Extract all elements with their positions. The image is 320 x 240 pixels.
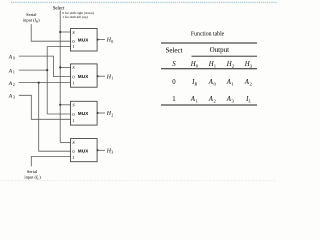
wire output H2 bbox=[97, 112, 105, 114]
svg-text:L: L bbox=[247, 99, 251, 104]
svg-text:1: 1 bbox=[72, 155, 74, 160]
node output H1 bbox=[97, 75, 99, 77]
node select-MUX0 bbox=[59, 31, 61, 33]
svg-text:3: 3 bbox=[13, 96, 15, 100]
table rule under Output bbox=[192, 55, 258, 57]
table rule mid bbox=[161, 68, 257, 70]
svg-text:0: 0 bbox=[13, 57, 15, 61]
svg-text:1: 1 bbox=[172, 96, 175, 103]
wire select stub to MUX0 S bbox=[60, 31, 70, 33]
wire output H0 bbox=[97, 39, 105, 41]
wire output H3 bbox=[97, 149, 105, 151]
wire output H1 bbox=[97, 75, 105, 77]
mux MUX0 box bbox=[71, 29, 98, 52]
wire A1 vertical net bbox=[47, 47, 70, 115]
wire select stub to MUX2 S bbox=[60, 104, 70, 106]
svg-text:1: 1 bbox=[13, 71, 15, 75]
svg-text:Function table: Function table bbox=[191, 32, 225, 38]
table rule bottom bbox=[161, 104, 257, 106]
svg-text:MUX: MUX bbox=[78, 111, 89, 116]
svg-text:0: 0 bbox=[172, 79, 176, 86]
node select-MUX2 bbox=[59, 104, 61, 106]
svg-text:1: 1 bbox=[111, 76, 113, 81]
svg-text:Serial: Serial bbox=[26, 12, 37, 17]
svg-text:1: 1 bbox=[72, 44, 74, 49]
mux MUX2 box bbox=[71, 101, 98, 125]
svg-text:1 for shift left (up): 1 for shift left (up) bbox=[62, 15, 88, 19]
mux MUX3 box bbox=[71, 139, 98, 162]
wire A1 horizontal bbox=[19, 69, 47, 71]
svg-text:1: 1 bbox=[72, 80, 74, 85]
table rule top bbox=[161, 42, 257, 44]
svg-text:2: 2 bbox=[13, 83, 15, 87]
svg-text:0: 0 bbox=[111, 39, 113, 44]
top dotted border bbox=[11, 1, 277, 3]
svg-text:Serial: Serial bbox=[27, 169, 38, 174]
node A1 junction bbox=[46, 69, 48, 71]
svg-text:3: 3 bbox=[111, 150, 113, 155]
svg-text:Output: Output bbox=[210, 46, 230, 54]
svg-text:MUX: MUX bbox=[78, 38, 89, 43]
node output H3 bbox=[97, 149, 99, 151]
svg-text:2: 2 bbox=[111, 112, 113, 117]
svg-text:1: 1 bbox=[72, 118, 74, 123]
wire A0 bbox=[19, 56, 71, 77]
svg-text:R: R bbox=[193, 81, 197, 86]
wire select corner to MUX3 S bbox=[60, 141, 70, 143]
wire serial IL bbox=[31, 157, 70, 167]
wire A2 horizontal into MUX1 bbox=[19, 82, 71, 84]
svg-text:S: S bbox=[172, 61, 176, 68]
wire serial IR bbox=[31, 24, 70, 41]
node A2 junction bbox=[38, 82, 40, 84]
node output H2 bbox=[97, 112, 99, 114]
svg-text:MUX: MUX bbox=[78, 74, 89, 79]
wire select vertical bbox=[59, 10, 61, 142]
mux MUX1 box bbox=[71, 64, 98, 87]
wire A2 vertical to MUX3 bbox=[39, 83, 71, 152]
svg-text:Select: Select bbox=[165, 46, 182, 54]
wire select stub to MUX1 S bbox=[60, 66, 70, 68]
node select-MUX1 bbox=[59, 66, 61, 68]
bottom faint dotted border bbox=[0, 180, 277, 182]
node output H0 bbox=[97, 39, 99, 41]
svg-text:MUX: MUX bbox=[78, 148, 89, 153]
wire A3 bbox=[19, 95, 71, 119]
